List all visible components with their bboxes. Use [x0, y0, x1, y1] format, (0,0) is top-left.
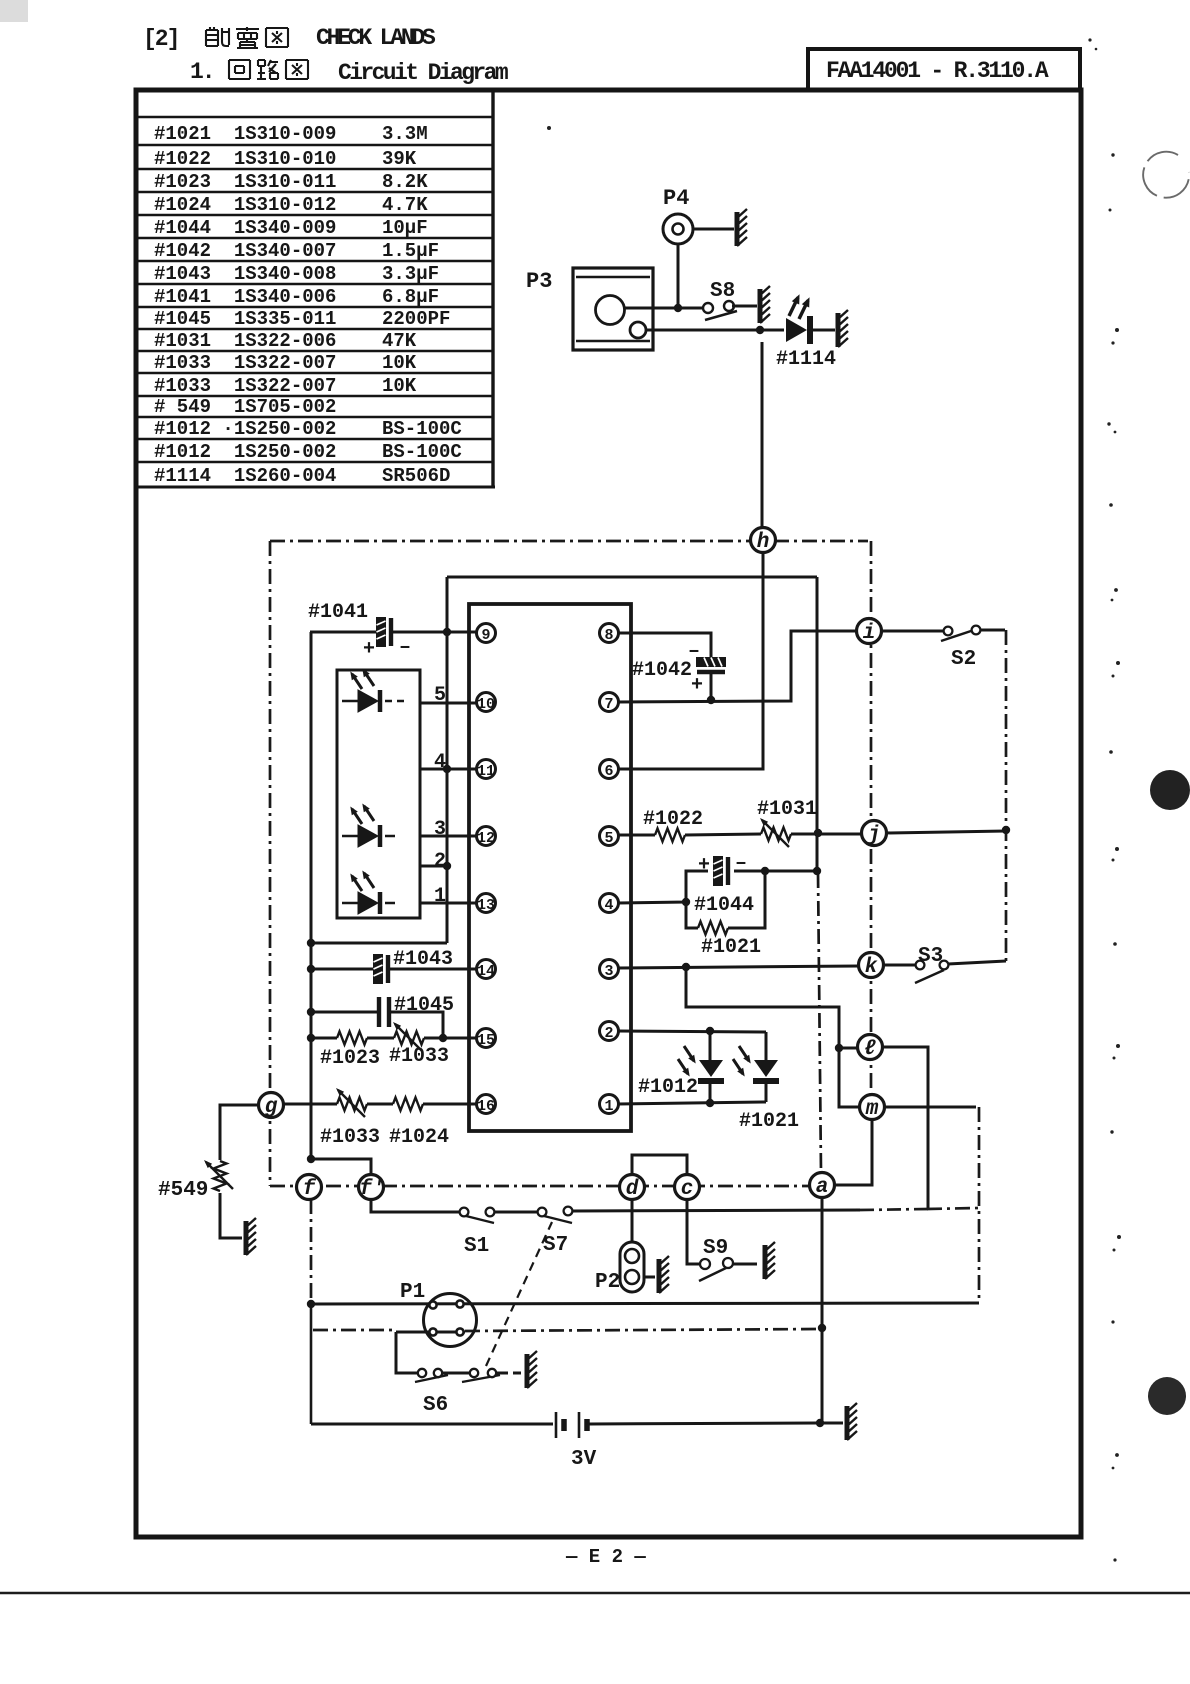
svg-text:#1042 1S340-007: #1042 1S340-007 — [154, 240, 336, 262]
svg-text:#1042: #1042 — [632, 659, 692, 682]
svg-text:1.5µF: 1.5µF — [382, 240, 439, 262]
svg-text:1: 1 — [604, 1098, 613, 1115]
svg-text:BS-100C: BS-100C — [382, 441, 462, 463]
svg-text:ℓ: ℓ — [864, 1038, 877, 1061]
svg-text:#1041 1S340-006: #1041 1S340-006 — [154, 286, 336, 308]
svg-text:j: j — [867, 824, 881, 847]
svg-text:8.2K: 8.2K — [382, 171, 428, 193]
svg-text:#1021: #1021 — [701, 936, 761, 959]
svg-text:#1033 1S322-007: #1033 1S322-007 — [154, 375, 336, 397]
svg-text:#1114: #1114 — [776, 348, 836, 371]
svg-text:SR506D: SR506D — [382, 465, 450, 487]
svg-text:13: 13 — [477, 897, 495, 914]
svg-text:3V: 3V — [571, 1448, 597, 1471]
svg-text:3.3M: 3.3M — [382, 123, 428, 145]
svg-text:1.: 1. — [190, 59, 214, 85]
svg-text:#1044: #1044 — [694, 894, 754, 917]
svg-text:#1022 1S310-010: #1022 1S310-010 — [154, 148, 336, 170]
svg-text:8: 8 — [604, 627, 613, 644]
svg-text:P3: P3 — [526, 269, 552, 294]
svg-text:BS-100C: BS-100C — [382, 418, 462, 440]
svg-text:f: f — [303, 1178, 317, 1201]
svg-text:#1114 1S260-004: #1114 1S260-004 — [154, 465, 336, 487]
svg-text:5: 5 — [604, 830, 613, 847]
svg-text:S7: S7 — [543, 1234, 568, 1257]
svg-text:k: k — [865, 956, 878, 979]
svg-text:39K: 39K — [382, 148, 417, 170]
svg-text:2: 2 — [434, 850, 446, 873]
svg-text:Circuit Diagram: Circuit Diagram — [338, 60, 508, 86]
svg-text:#1044 1S340-009: #1044 1S340-009 — [154, 217, 336, 239]
svg-text:+: + — [698, 854, 710, 877]
svg-text:10K: 10K — [382, 352, 417, 374]
svg-text:47K: 47K — [382, 330, 417, 352]
svg-text:#1031: #1031 — [757, 798, 817, 821]
svg-text:d: d — [626, 1178, 639, 1201]
svg-text:#1043: #1043 — [393, 948, 453, 971]
svg-text:f': f' — [359, 1178, 384, 1201]
svg-text:10K: 10K — [382, 375, 417, 397]
svg-text:#1024: #1024 — [389, 1126, 449, 1149]
svg-text:10µF: 10µF — [382, 217, 428, 239]
svg-text:14: 14 — [477, 963, 495, 980]
svg-text:16: 16 — [477, 1098, 495, 1115]
svg-text:#1033: #1033 — [320, 1126, 380, 1149]
svg-text:#1012 1S250-002: #1012 1S250-002 — [154, 441, 336, 463]
svg-text:#1012 ·1S250-002: #1012 ·1S250-002 — [154, 418, 336, 440]
svg-text:1: 1 — [434, 885, 446, 908]
svg-text:#1021 1S310-009: #1021 1S310-009 — [154, 123, 336, 145]
svg-text:#1033 1S322-007: #1033 1S322-007 — [154, 352, 336, 374]
svg-text:2200PF: 2200PF — [382, 308, 450, 330]
svg-text:4: 4 — [604, 897, 613, 914]
svg-text:#1022: #1022 — [643, 808, 703, 831]
svg-text:[2]: [2] — [143, 26, 178, 52]
svg-text:S8: S8 — [710, 280, 735, 303]
svg-text:#1043 1S340-008: #1043 1S340-008 — [154, 263, 336, 285]
svg-text:10: 10 — [477, 696, 495, 713]
svg-text:9: 9 — [481, 627, 490, 644]
svg-text:c: c — [681, 1178, 694, 1201]
svg-text:S3: S3 — [918, 945, 943, 968]
svg-text:6: 6 — [604, 763, 613, 780]
svg-text:i: i — [863, 622, 876, 645]
svg-text:–: – — [735, 852, 747, 875]
svg-text:+: + — [691, 674, 703, 697]
svg-text:2: 2 — [604, 1025, 613, 1042]
svg-text:m: m — [865, 1098, 879, 1121]
svg-text:3: 3 — [604, 963, 613, 980]
svg-text:S2: S2 — [951, 648, 976, 671]
svg-text:P4: P4 — [663, 186, 689, 211]
svg-text:h: h — [757, 531, 770, 554]
svg-text:FAA14001 - R.3110.A: FAA14001 - R.3110.A — [826, 58, 1049, 84]
svg-text:#549: #549 — [158, 1179, 208, 1202]
svg-text:#1031 1S322-006: #1031 1S322-006 — [154, 330, 336, 352]
svg-text:#1033: #1033 — [389, 1045, 449, 1068]
svg-text:#1023 1S310-011: #1023 1S310-011 — [154, 171, 336, 193]
svg-text:3: 3 — [434, 818, 446, 841]
svg-text:#1021: #1021 — [739, 1110, 799, 1133]
svg-text:6.8µF: 6.8µF — [382, 286, 439, 308]
svg-text:S6: S6 — [423, 1394, 448, 1417]
svg-text:P1: P1 — [400, 1281, 425, 1304]
svg-text:4.7K: 4.7K — [382, 194, 428, 216]
svg-text:S1: S1 — [464, 1235, 489, 1258]
svg-text:a: a — [816, 1176, 829, 1199]
svg-text:#1045: #1045 — [394, 994, 454, 1017]
svg-text:P2: P2 — [595, 1271, 620, 1294]
svg-text:#1041: #1041 — [308, 601, 368, 624]
svg-text:–: – — [399, 636, 411, 659]
svg-text:— E 2 —: — E 2 — — [565, 1546, 646, 1568]
svg-text:7: 7 — [604, 696, 613, 713]
svg-text:#1012: #1012 — [638, 1076, 698, 1099]
svg-text:#1024 1S310-012: #1024 1S310-012 — [154, 194, 336, 216]
svg-text:CHECK LANDS: CHECK LANDS — [316, 25, 436, 51]
svg-text:12: 12 — [477, 830, 495, 847]
svg-text:+: + — [363, 638, 375, 661]
svg-text:5: 5 — [434, 684, 446, 707]
svg-text:g: g — [265, 1096, 278, 1119]
svg-text:15: 15 — [477, 1032, 495, 1049]
svg-text:#1023: #1023 — [320, 1047, 380, 1070]
svg-text:3.3µF: 3.3µF — [382, 263, 439, 285]
svg-text:11: 11 — [477, 763, 495, 780]
svg-text:# 549 1S705-002: # 549 1S705-002 — [154, 396, 336, 418]
svg-text:S9: S9 — [703, 1237, 728, 1260]
svg-text:#1045 1S335-011: #1045 1S335-011 — [154, 308, 336, 330]
